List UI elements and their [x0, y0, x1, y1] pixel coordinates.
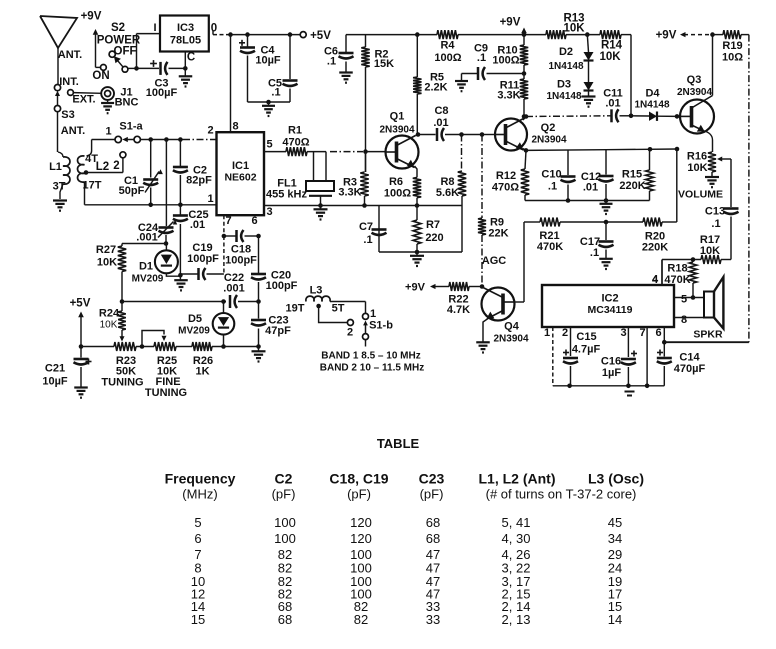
svg-text:R14: R14: [601, 40, 623, 52]
svg-text:.01: .01: [190, 219, 205, 231]
svg-text:C21: C21: [45, 363, 65, 375]
svg-text:220K: 220K: [642, 242, 668, 254]
svg-text:D1: D1: [139, 261, 153, 273]
svg-text:MC34119: MC34119: [588, 304, 633, 316]
svg-text:C10: C10: [541, 169, 561, 181]
svg-text:22K: 22K: [488, 228, 508, 240]
svg-text:17T: 17T: [83, 180, 102, 192]
svg-text:47pF: 47pF: [265, 325, 291, 337]
svg-text:C15: C15: [576, 331, 596, 343]
svg-text:(# of turns on T-37-2 core): (# of turns on T-37-2 core): [486, 487, 637, 502]
svg-text:C18, C19: C18, C19: [329, 471, 388, 487]
svg-text:4, 30: 4, 30: [502, 531, 531, 546]
svg-text:1: 1: [207, 193, 213, 205]
svg-text:470µF: 470µF: [674, 363, 706, 375]
svg-text:2N3904: 2N3904: [531, 135, 566, 146]
svg-text:78L05: 78L05: [170, 35, 201, 47]
svg-text:L1: L1: [49, 161, 62, 173]
svg-text:15: 15: [191, 612, 205, 627]
svg-text:7: 7: [225, 215, 231, 227]
svg-text:D3: D3: [557, 79, 571, 91]
svg-text:10Ω: 10Ω: [722, 52, 743, 64]
svg-text:.1: .1: [477, 52, 486, 64]
svg-text:1µF: 1µF: [602, 367, 621, 379]
svg-text:100Ω: 100Ω: [492, 55, 519, 67]
svg-text:S1-a: S1-a: [119, 121, 143, 133]
svg-text:+9V: +9V: [656, 30, 677, 42]
svg-text:2, 13: 2, 13: [502, 612, 531, 627]
svg-text:R15: R15: [622, 169, 642, 181]
svg-text:2N3904: 2N3904: [493, 334, 528, 345]
svg-text:S2: S2: [111, 22, 125, 34]
svg-text:6: 6: [194, 531, 201, 546]
svg-text:.01: .01: [433, 117, 448, 129]
svg-text:4.7K: 4.7K: [447, 304, 470, 316]
svg-text:C2: C2: [275, 471, 293, 487]
svg-text:50pF: 50pF: [119, 185, 145, 197]
svg-text:TABLE: TABLE: [377, 436, 420, 451]
svg-text:5: 5: [266, 139, 272, 151]
svg-text:33: 33: [426, 612, 440, 627]
svg-text:S1-b: S1-b: [369, 320, 393, 332]
svg-text:5: 5: [194, 515, 201, 530]
svg-text:R1: R1: [288, 125, 302, 137]
svg-text:Q1: Q1: [390, 111, 405, 123]
svg-text:.1: .1: [271, 87, 280, 99]
svg-text:2: 2: [562, 327, 568, 339]
svg-text:EXT.: EXT.: [72, 94, 95, 106]
svg-text:3.3K: 3.3K: [497, 90, 520, 102]
svg-text:R19: R19: [722, 40, 742, 52]
svg-text:(MHz): (MHz): [182, 487, 217, 502]
svg-text:220: 220: [425, 232, 443, 244]
svg-text:100Ω: 100Ω: [434, 52, 461, 64]
svg-text:C23: C23: [419, 471, 445, 487]
svg-text:NE602: NE602: [224, 172, 256, 184]
svg-text:68: 68: [278, 612, 292, 627]
svg-text:2: 2: [113, 160, 119, 172]
svg-text:1: 1: [105, 126, 111, 138]
svg-text:100µF: 100µF: [146, 87, 178, 99]
svg-text:1: 1: [370, 308, 376, 320]
svg-text:34: 34: [608, 531, 622, 546]
svg-text:+9V: +9V: [405, 282, 426, 294]
svg-text:ANT.: ANT.: [58, 49, 82, 61]
svg-text:L3: L3: [310, 285, 323, 297]
svg-text:220K: 220K: [619, 180, 645, 192]
svg-text:5: 5: [681, 294, 687, 306]
svg-text:OFF: OFF: [114, 46, 137, 58]
svg-text:10K: 10K: [100, 320, 118, 331]
svg-text:2: 2: [207, 125, 213, 137]
svg-text:6: 6: [655, 327, 661, 339]
svg-text:INT.: INT.: [59, 76, 79, 88]
svg-text:ANT.: ANT.: [61, 125, 85, 137]
svg-text:2: 2: [347, 327, 353, 339]
svg-text:MV209: MV209: [178, 326, 210, 337]
svg-text:1N4148: 1N4148: [634, 100, 669, 111]
svg-text:10K: 10K: [97, 257, 117, 269]
svg-text:100pF: 100pF: [225, 255, 257, 267]
svg-text:R24: R24: [99, 308, 120, 320]
svg-text:470Ω: 470Ω: [492, 182, 519, 194]
svg-text:R4: R4: [440, 40, 455, 52]
svg-text:3.3K: 3.3K: [338, 187, 361, 199]
svg-text:R7: R7: [426, 219, 440, 231]
svg-text:.1: .1: [590, 247, 599, 259]
svg-text:120: 120: [350, 531, 372, 546]
svg-text:0: 0: [211, 23, 217, 35]
svg-text:AGC: AGC: [482, 255, 507, 267]
svg-text:100pF: 100pF: [187, 253, 219, 265]
svg-text:D4: D4: [645, 88, 660, 100]
svg-text:C13: C13: [705, 206, 725, 218]
svg-text:IC1: IC1: [232, 160, 249, 172]
svg-text:7: 7: [639, 327, 645, 339]
svg-text:68: 68: [426, 531, 440, 546]
svg-text:.1: .1: [711, 218, 720, 230]
svg-text:1N4148: 1N4148: [546, 91, 581, 102]
svg-text:8: 8: [681, 314, 687, 326]
svg-text:4.7µF: 4.7µF: [572, 344, 601, 356]
svg-text:5.6K: 5.6K: [436, 187, 459, 199]
svg-text:TUNING: TUNING: [145, 387, 187, 399]
svg-text:S3: S3: [61, 109, 74, 121]
svg-text:2N3904: 2N3904: [379, 125, 414, 136]
svg-text:100: 100: [274, 531, 296, 546]
svg-text:+9V: +9V: [81, 11, 102, 23]
svg-text:+9V: +9V: [500, 17, 521, 29]
svg-text:C14: C14: [679, 352, 700, 364]
svg-text:I: I: [153, 22, 156, 34]
svg-text:BAND 2 10 – 11.5 MHz: BAND 2 10 – 11.5 MHz: [320, 363, 425, 374]
svg-text:MV209: MV209: [132, 274, 164, 285]
svg-text:.1: .1: [363, 234, 372, 246]
svg-text:5T: 5T: [332, 303, 345, 315]
svg-text:D2: D2: [559, 46, 573, 58]
svg-text:(pF): (pF): [272, 487, 296, 502]
svg-text:L1, L2 (Ant): L1, L2 (Ant): [479, 471, 556, 487]
svg-text:Q3: Q3: [687, 74, 702, 86]
svg-text:.01: .01: [605, 98, 620, 110]
svg-text:2.2K: 2.2K: [424, 82, 447, 94]
svg-text:L2: L2: [96, 161, 109, 173]
svg-text:1N4148: 1N4148: [548, 61, 583, 72]
svg-text:455 kHz: 455 kHz: [266, 189, 307, 201]
svg-text:120: 120: [350, 515, 372, 530]
svg-text:10K: 10K: [563, 23, 585, 35]
svg-text:.1: .1: [327, 56, 336, 68]
svg-text:2N3904: 2N3904: [677, 87, 712, 98]
svg-text:.1: .1: [548, 181, 557, 193]
svg-text:Q4: Q4: [504, 321, 520, 333]
svg-text:(pF): (pF): [420, 487, 444, 502]
svg-text:5, 41: 5, 41: [502, 515, 531, 530]
svg-text:14: 14: [608, 612, 622, 627]
svg-text:3T: 3T: [53, 181, 66, 193]
svg-text:C: C: [187, 52, 195, 64]
svg-text:ON: ON: [92, 70, 109, 82]
svg-text:L3 (Osc): L3 (Osc): [588, 471, 644, 487]
svg-text:8: 8: [232, 121, 238, 133]
svg-text:.001: .001: [223, 283, 244, 295]
svg-text:D5: D5: [188, 313, 202, 325]
svg-text:100pF: 100pF: [266, 280, 298, 292]
svg-text:470Ω: 470Ω: [282, 137, 309, 149]
svg-text:SPKR: SPKR: [693, 329, 723, 341]
svg-text:19T: 19T: [286, 303, 305, 315]
svg-text:Q2: Q2: [541, 122, 556, 134]
svg-text:Frequency: Frequency: [165, 471, 236, 487]
svg-text:.01: .01: [583, 182, 598, 194]
svg-text:10µF: 10µF: [255, 55, 281, 67]
svg-text:BNC: BNC: [115, 97, 139, 109]
svg-text:10K: 10K: [599, 51, 621, 63]
svg-text:C16: C16: [601, 356, 621, 368]
svg-text:+5V: +5V: [70, 298, 91, 310]
svg-text:10K: 10K: [687, 162, 707, 174]
svg-text:+5V: +5V: [310, 30, 331, 42]
svg-text:R18: R18: [667, 263, 687, 275]
svg-text:IC2: IC2: [601, 293, 618, 305]
svg-text:R12: R12: [496, 170, 516, 182]
svg-text:C8: C8: [434, 105, 448, 117]
svg-text:45: 45: [608, 515, 622, 530]
svg-text:R27: R27: [96, 244, 116, 256]
svg-text:R16: R16: [687, 151, 707, 163]
svg-text:3: 3: [620, 327, 626, 339]
svg-text:TUNING: TUNING: [101, 377, 143, 389]
svg-text:470K: 470K: [537, 241, 563, 253]
svg-text:(pF): (pF): [347, 487, 371, 502]
svg-text:1: 1: [544, 327, 550, 339]
svg-text:68: 68: [426, 515, 440, 530]
svg-text:.001: .001: [136, 232, 157, 244]
svg-text:100Ω: 100Ω: [384, 188, 411, 200]
svg-text:R6: R6: [389, 176, 403, 188]
svg-text:IC3: IC3: [177, 22, 194, 34]
svg-text:100: 100: [274, 515, 296, 530]
svg-text:15K: 15K: [374, 58, 394, 70]
svg-text:VOLUME: VOLUME: [678, 189, 723, 201]
svg-text:3: 3: [266, 206, 272, 218]
svg-text:4: 4: [652, 274, 659, 286]
svg-text:82pF: 82pF: [186, 175, 212, 187]
svg-text:6: 6: [251, 215, 257, 227]
svg-text:82: 82: [354, 612, 368, 627]
svg-text:10µF: 10µF: [42, 376, 68, 388]
svg-text:C7: C7: [359, 221, 373, 233]
svg-text:10K: 10K: [700, 245, 720, 257]
svg-text:1K: 1K: [195, 366, 209, 378]
svg-text:BAND 1 8.5 – 10 MHz: BAND 1 8.5 – 10 MHz: [321, 351, 420, 362]
